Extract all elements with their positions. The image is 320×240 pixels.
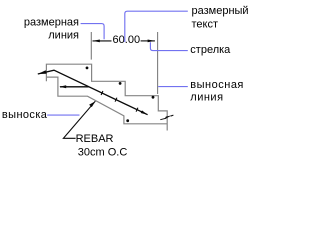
bar A tick 2 (115, 98, 117, 102)
REBAR leader arrowhead (89, 101, 95, 107)
rebar bar A (long diagonal) (38, 70, 148, 115)
extension line 1 (90, 32, 92, 60)
rebar dot 4 (126, 119, 129, 122)
rebar dot 2 (119, 82, 122, 85)
svg-text:60.00: 60.00 (113, 34, 141, 46)
bar A tick 3 (136, 108, 138, 112)
rebar bar B (short horizontal) (60, 86, 89, 88)
left break cut (46, 77, 167, 124)
dimension arrow right (148, 40, 155, 43)
rebar dot 3 (152, 96, 155, 99)
svg-text:стрелка: стрелка (190, 44, 231, 56)
bar A left arrowhead (38, 70, 47, 74)
break mark on right edge (160, 115, 173, 120)
svg-text:выносная: выносная (190, 79, 244, 91)
stair step outline (46, 64, 167, 130)
bar A tick 1 (101, 91, 103, 95)
svg-text:размерный: размерный (192, 5, 249, 17)
svg-text:линия: линия (190, 92, 223, 104)
rebar dot 1 (86, 67, 89, 70)
REBAR note leader (63, 101, 95, 138)
svg-text:выноска: выноска (2, 109, 48, 121)
svg-text:текст: текст (192, 19, 219, 31)
leader to extension line (выносная линия) (158, 86, 188, 88)
leader to dimension text (размерный текст) (125, 11, 188, 42)
leader to callout (выноска) (47, 114, 79, 116)
svg-text:линия: линия (48, 29, 79, 41)
svg-text:30cm O.C: 30cm O.C (78, 147, 128, 159)
leader to arrow (стрелка) (150, 42, 187, 50)
dimension arrow left (93, 40, 100, 43)
bar A right arrowhead (141, 110, 148, 114)
svg-text:размерная: размерная (24, 17, 79, 29)
extension line 2 (157, 32, 159, 94)
dimension line right segment (141, 40, 155, 42)
dimension line left segment (93, 40, 112, 42)
svg-text:REBAR: REBAR (76, 133, 114, 145)
leader to dimension line (размерная линия) (81, 24, 105, 40)
bar B left arrowhead (59, 85, 66, 88)
